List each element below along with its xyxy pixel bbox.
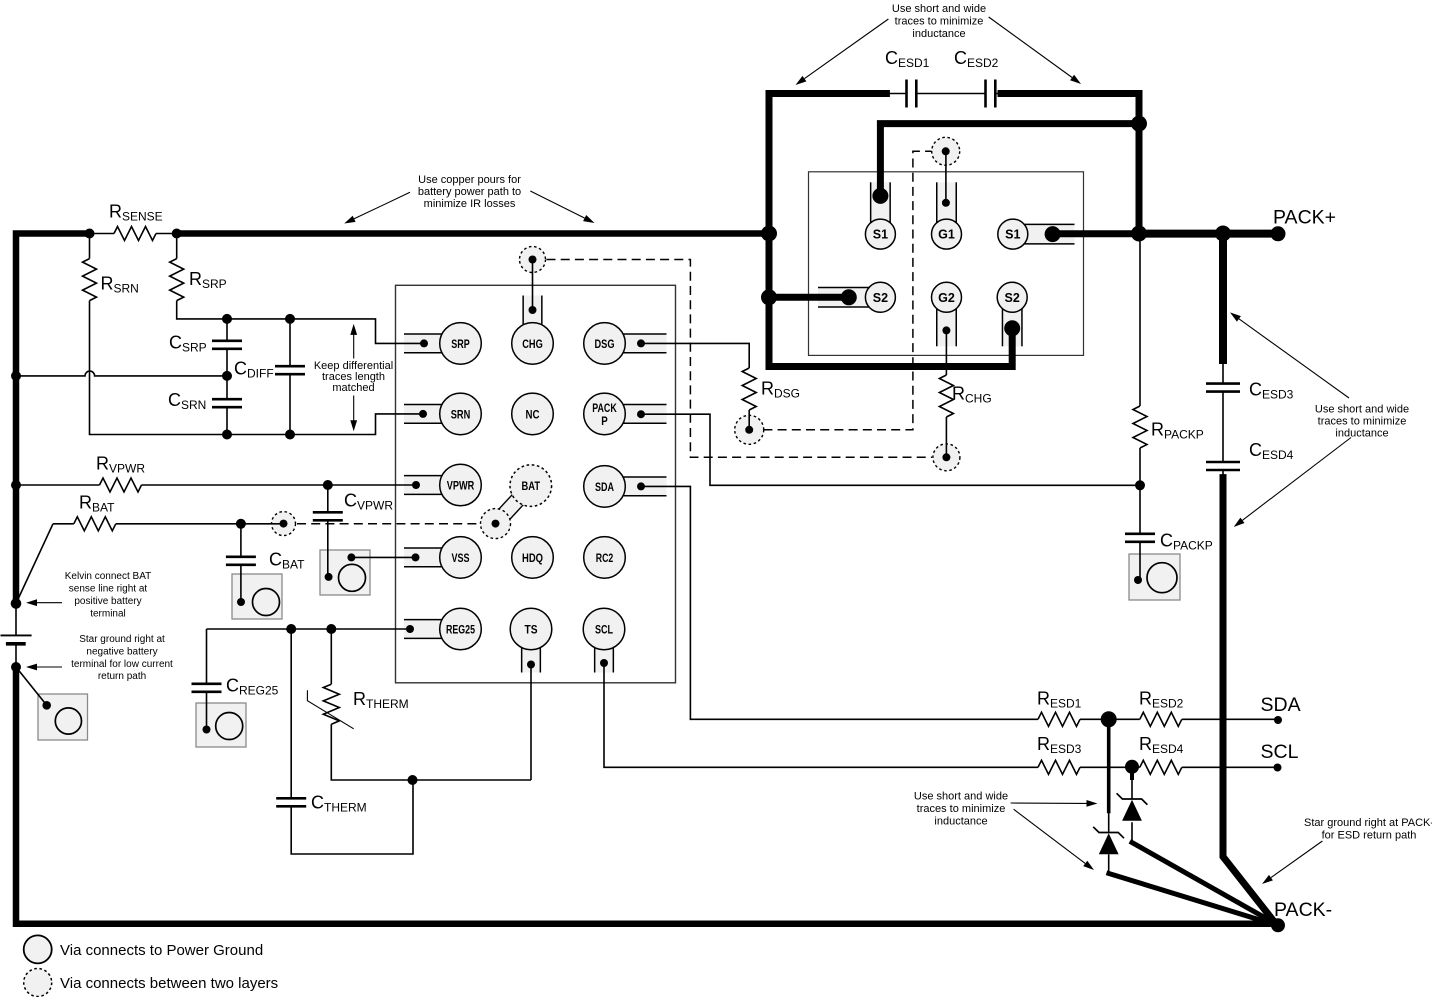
pad SRN [440,393,482,435]
via (two-layer) below RCHG [933,444,960,471]
capacitor C_BAT branch wire [240,524,242,602]
dot junction C_ESD3 top [1215,226,1231,242]
via (two-layer) at G1 [932,137,960,165]
svg-text:HDQ: HDQ [522,551,543,565]
via square CBAT ground [232,574,282,619]
pad CHG [512,323,554,365]
svg-text:Use short and wide: Use short and wide [892,3,986,15]
dot via dot CVPWR ground [325,573,333,581]
dot pad dot SDA [637,482,645,490]
capacitor C_ESD1 [905,80,908,108]
capacitor C_PACKP [1125,532,1155,535]
pad G1 stub [937,182,957,234]
note arrow kelvin [37,602,62,604]
dot node C_SRN bottom [222,430,232,440]
capacitor C_ESD4 [1206,461,1240,464]
dot node thermistor rail [408,775,418,785]
resistor R_SRP and SRP top rail [176,234,178,259]
dot pad dot SRN [419,410,427,418]
pad BAT angled stub [490,481,536,529]
dot pad dot G2 [942,326,950,334]
wire SRN mid node with hop over R_SRN [16,371,227,376]
wire CHG via to pad [532,260,534,311]
zener diode D2 [1117,793,1148,804]
thick trace ESD clamp stub [1107,719,1111,811]
capacitor C_VPWR branch wire [327,485,329,577]
pad CHG stub [523,296,542,344]
capacitor C_DIFF [275,365,305,368]
dot pad dot S1-left [872,188,888,204]
thick trace D2 to PACK- [1132,843,1277,925]
note arrow copper pours left [354,192,410,219]
svg-text:PACK+: PACK+ [1273,206,1336,228]
thick trace FET loop upper-left [769,94,886,238]
svg-text:S2: S2 [1005,291,1020,305]
via square CREG25 ground [196,703,246,747]
dot node C_THERM top [286,624,296,634]
svg-text:SRN: SRN [451,407,471,421]
capacitor C_SRP branch wire [226,319,228,376]
thick trace S2-left [769,294,849,301]
via square CPACKP ground [1129,554,1180,600]
capacitor C_DIFF branch wire [289,319,291,435]
resistor R_ESD1 [1038,712,1080,726]
svg-text:VSS: VSS [452,551,470,565]
via (two-layer) below RDSG [735,415,764,444]
dot node C_DIFF bottom [285,430,295,440]
pad TS stub [522,629,541,673]
capacitor C_THERM [276,797,306,800]
pad G2 [932,282,962,312]
dot pad dot CHG [529,306,537,314]
dot node R_SENSE right [172,229,182,239]
note arrow right up [1239,319,1349,398]
dot via dot battery ground [42,701,51,710]
dot terminal PACK+ [1271,226,1286,241]
svg-text:PACK-: PACK- [1274,899,1332,921]
capacitor C_REG25 branch wire [206,629,208,730]
pad DSG stub [605,334,667,353]
note arrow keep differential [353,333,355,422]
pad S1 (left) [865,219,895,249]
svg-text:Via connects between two layer: Via connects between two layers [60,975,278,992]
thick trace C_ESD4 to PACK- [1223,478,1276,924]
dot node C_SRP/C_SRN mid [222,371,232,381]
wire SCL from pad [604,663,1038,767]
thick trace FET loop lower / S2-right return [769,230,1012,367]
svg-text:DSG: DSG [595,337,615,351]
pad VSS [440,537,482,579]
pad SCL [583,608,625,650]
svg-text:minimize IR losses: minimize IR losses [424,198,516,210]
pad RC2 [584,537,626,579]
dot junction PACK+ rail [1131,226,1147,242]
dot node R_ESD4/D2 [1125,760,1139,774]
pad S1 (right) [998,219,1028,249]
dot node C_VPWR top [323,480,333,490]
capacitor C_VPWR [313,511,343,514]
dot node R_PACKP bottom [1135,480,1145,490]
wire G2 to R_CHG [945,330,947,375]
zener diode D1 wire [1108,810,1110,874]
svg-text:NC: NC [526,407,540,421]
pad PACKP stub [605,405,667,424]
via (two-layer) on RBAT line [272,512,296,536]
dashed trace RBAT-via to BAT-via (bottom layer) [297,523,481,525]
capacitor C_SRN branch wire [226,376,228,435]
capacitor C_PACKP branch wire [1139,485,1141,580]
legend via two layers symbol [24,969,52,997]
svg-text:matched: matched [332,382,374,394]
pad SDA [584,466,626,508]
svg-text:positive battery: positive battery [74,596,141,607]
svg-text:Use short and wide: Use short and wide [1315,403,1409,415]
wire battery negative to ground via [16,667,47,705]
svg-text:inductance: inductance [1335,427,1388,439]
thick trace S1-left riser [880,124,1139,196]
dot node battery positive [11,598,22,609]
dot pad dot S2-left [841,289,857,305]
pad PACKP [584,393,626,435]
resistor R_ESD3 [1038,760,1080,774]
svg-text:BAT: BAT [522,479,541,493]
pad S1 (right) stub [1013,224,1075,244]
wire REG25 rail [207,628,411,630]
dot pad dot REG25 [406,625,414,633]
pad DSG [584,323,626,365]
IC U1 land-pattern outline [396,285,676,683]
note arrow top right [989,17,1072,78]
capacitor C_SRP [212,339,242,342]
dot node C_BAT top [236,519,246,529]
svg-text:traces to minimize: traces to minimize [895,15,984,27]
thick trace PACK+ segment [1139,230,1271,238]
capacitor C_ESD3 [1206,382,1240,385]
svg-text:G1: G1 [938,228,955,242]
svg-text:P: P [601,414,608,428]
resistor R_DSG [742,368,756,410]
FET block outline [809,172,1084,356]
svg-text:battery power path to: battery power path to [418,186,521,198]
dot via dot CPACKP ground [1134,576,1142,584]
svg-text:for ESD return path: for ESD return path [1322,830,1417,842]
pad REG25 stub [404,620,461,639]
via square at battery negative [38,694,88,740]
wire DSG to R_DSG [641,343,749,368]
wire SDA from pad [641,486,1038,719]
svg-text:sense line right at: sense line right at [69,584,148,595]
pad SRP [440,323,482,365]
dot via dot CREG25 ground [203,726,211,734]
svg-text:REG25: REG25 [446,623,475,637]
svg-text:SRP: SRP [451,337,470,351]
thick trace PACK- bottom rail [16,667,1277,924]
svg-text:negative battery: negative battery [86,647,157,658]
thick trace PACK+ down to C_ESD3 [1219,237,1227,360]
wire PACKP to R_PACKP/C_PACKP node [641,414,1140,485]
dot node R_VPWR on left rail [11,480,21,490]
wire R_BAT to battery positive (Kelvin) [16,524,53,604]
svg-text:RC2: RC2 [596,551,614,565]
svg-text:SCL: SCL [595,623,613,637]
capacitor C_REG25 [192,682,222,685]
capacitor C_ESD2 [984,80,987,108]
svg-text:terminal for low current: terminal for low current [71,659,173,670]
dot pad dot TS [527,661,535,669]
thick trace battery+ top rail (left of R_SENSE) [16,234,90,604]
pad S2 (right) stub [1002,297,1022,346]
dot terminal dot SDA [1274,716,1282,724]
dot junction FET loop on top rail [761,226,777,242]
via (two-layer) at BAT [481,509,511,539]
thick trace S1-right to PACK+ rail [1053,230,1139,237]
dot junction FET upper right [1131,116,1147,132]
svg-text:terminal: terminal [90,609,126,620]
capacitor C_SRN [212,398,242,401]
dot node R_ESD1/R_ESD2 [1101,711,1117,727]
resistor R_VPWR and VPWR wire [16,484,100,486]
pad S2 (left) [865,282,895,312]
thick trace D1 to PACK- [1109,874,1277,926]
dot pad dot SRP [420,339,428,347]
svg-text:Use copper pours for: Use copper pours for [418,174,521,186]
note arrow star ground PACK- [1271,841,1322,878]
pad TS [510,608,552,650]
svg-text:Star ground right at PACK-: Star ground right at PACK- [1304,817,1432,829]
svg-text:CHG: CHG [522,337,543,351]
resistor R_ESD4 [1140,760,1182,774]
note arrow bottom diagonal [1014,809,1086,863]
svg-text:traces to minimize: traces to minimize [1318,415,1407,427]
svg-text:Kelvin connect BAT: Kelvin connect BAT [65,571,152,582]
dot pad dot VPWR [412,481,420,489]
dot junction S2-left [761,289,777,305]
dot pad dot S1-right [1045,226,1061,242]
svg-text:inductance: inductance [934,815,987,827]
via (two-layer) at CHG [520,247,546,273]
legend via power ground symbol [24,935,52,963]
dot pad dot SCL [600,659,608,667]
dot pad dot S2-right [1004,320,1020,336]
dot via dot VSS ground [347,553,355,561]
battery cell B1 [15,604,17,636]
dot node R_SENSE left [85,229,95,239]
dashed trace CHG-via to RCHG-via (bottom layer) [547,260,933,458]
svg-text:SDA: SDA [595,480,614,494]
dot node C_SRP top [222,314,232,324]
note arrow star ground [37,666,62,668]
note arrow copper pours right [530,191,584,218]
wire G1 pad to via [945,151,947,203]
resistor R_SRN and SRN bottom rail [89,234,91,259]
dot pad dot PACKP [637,410,645,418]
svg-text:return path: return path [98,671,146,682]
svg-text:S1: S1 [1005,228,1020,242]
thick trace FET loop upper-right [1001,94,1139,231]
capacitor C_THERM branch wire [291,629,413,854]
thermistor arrow mark on R_THERM [307,690,353,729]
pad REG25 [440,608,482,650]
wire VSS to ground via [351,556,415,558]
dot node R_THERM top [326,624,336,634]
pad VPWR stub [404,476,461,495]
resistor R_THERM branch [330,629,332,684]
dot node battery negative [11,662,21,672]
pad S1 (left) stub [871,182,891,234]
pad NC [512,393,554,435]
svg-text:Use short and wide: Use short and wide [914,791,1008,803]
pad S2 (left) stub [818,288,880,308]
svg-text:S2: S2 [873,291,888,305]
capacitor C_BAT [226,555,256,558]
svg-text:TS: TS [525,623,538,637]
svg-text:S1: S1 [873,228,888,242]
dot node C_DIFF top [285,314,295,324]
pad SRN stub [404,405,461,424]
pad G2 stub [937,297,957,346]
resistor R_SENSE [90,233,115,235]
pad BAT (dotted via pad) [510,465,552,507]
wire between C_ESD1 and C_ESD2 [886,93,1001,95]
svg-text:PACK: PACK [592,401,617,415]
pad HDQ [512,537,554,579]
resistor R_PACKP branch [1139,235,1141,407]
note arrow top left [805,19,889,79]
note keep differential [314,359,394,396]
dot pad dot DSG [637,339,645,347]
dot via dot CBAT ground [237,598,245,606]
svg-text:SCL: SCL [1261,741,1299,763]
dot pad dot VSS [412,553,420,561]
pad VSS stub [404,548,461,567]
svg-text:G2: G2 [938,291,955,305]
svg-text:inductance: inductance [912,28,965,40]
pad SCL stub [595,629,614,673]
wire C_ESD3 C_ESD4 chain [1222,360,1224,479]
dashed trace RDSG-via to G1-via (bottom layer) [763,151,931,430]
dot terminal PACK- [1271,918,1285,932]
via square CVPWR ground [320,550,370,595]
svg-text:VPWR: VPWR [447,479,475,493]
zener diode D2 wire [1131,778,1133,843]
dot node SRN mid on left rail [11,371,21,381]
note arrow right down [1242,438,1351,521]
resistor R_BAT wire [53,523,74,525]
zener diode D1 [1093,827,1124,838]
thick trace top rail (left of FET) [177,230,769,237]
svg-text:Star ground right at: Star ground right at [79,634,165,645]
pad SDA stub [605,477,667,496]
dot terminal dot SCL [1274,764,1282,772]
svg-text:SDA: SDA [1261,694,1301,716]
resistor R_CHG [939,375,953,417]
wire TS down to thermistor rail [530,665,532,781]
note arrow bottom horizontal [1011,802,1087,804]
pad S2 (right) [997,282,1027,312]
pad VPWR [440,464,482,506]
svg-text:traces to minimize: traces to minimize [917,803,1006,815]
dot pad dot G1 [942,199,950,207]
pad G1 [932,219,962,249]
pad SRP stub [404,334,461,353]
svg-text:Via connects to Power Ground: Via connects to Power Ground [60,942,263,959]
resistor R_ESD2 [1109,718,1140,720]
